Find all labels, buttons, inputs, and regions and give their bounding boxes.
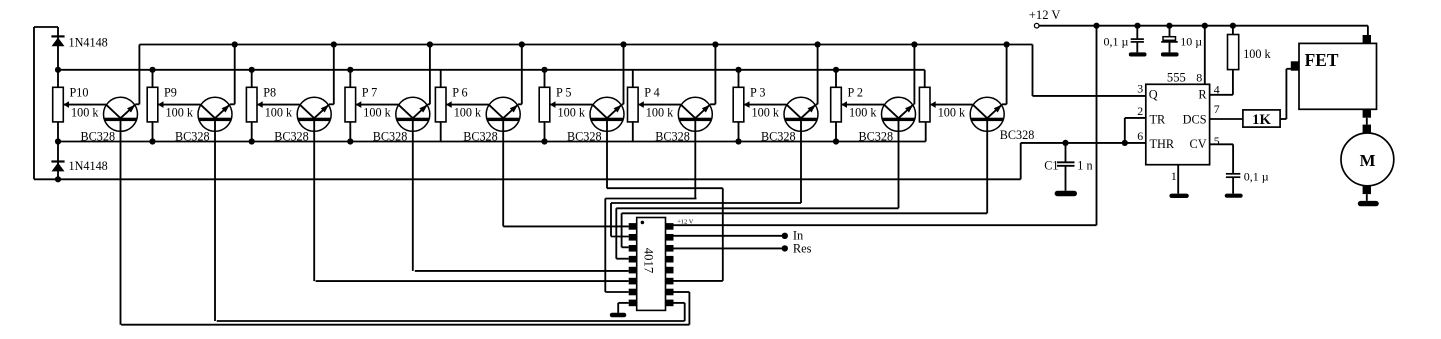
svg-text:P9: P9 [164,86,177,100]
svg-text:5: 5 [1214,134,1220,148]
svg-text:100 k: 100 k [265,106,293,120]
svg-text:DCS: DCS [1183,113,1207,127]
svg-text:BC328: BC328 [761,129,796,143]
svg-text:1 n: 1 n [1077,158,1092,172]
svg-text:1N4148: 1N4148 [69,159,108,173]
svg-text:1K: 1K [1252,112,1271,128]
svg-text:100 k: 100 k [1243,47,1271,61]
svg-text:0,1 µ: 0,1 µ [1104,34,1129,48]
svg-text:7: 7 [1214,102,1220,116]
svg-text:Res: Res [793,241,812,255]
svg-text:8: 8 [1196,70,1202,84]
svg-text:P 2: P 2 [848,86,863,100]
svg-text:10 µ: 10 µ [1180,34,1202,48]
svg-text:BC328: BC328 [463,129,498,143]
svg-text:R: R [1198,88,1207,102]
svg-text:100 k: 100 k [166,106,194,120]
svg-text:BC328: BC328 [1000,128,1035,142]
svg-text:TR: TR [1150,113,1167,127]
svg-text:P 7: P 7 [362,86,377,100]
svg-text:P 6: P 6 [452,86,467,100]
svg-text:100 k: 100 k [646,106,674,120]
svg-text:100 k: 100 k [849,106,877,120]
svg-text:P 4: P 4 [644,86,659,100]
svg-text:BC328: BC328 [859,129,894,143]
svg-text:100 k: 100 k [454,106,482,120]
svg-text:6: 6 [1137,129,1143,143]
svg-text:CV: CV [1190,137,1207,151]
svg-text:THR: THR [1150,137,1175,151]
svg-text:4017: 4017 [642,248,656,273]
svg-text:2: 2 [1137,104,1143,118]
svg-text:BC328: BC328 [655,129,690,143]
svg-text:FET: FET [1305,50,1339,70]
svg-text:P10: P10 [70,86,89,100]
svg-text:1: 1 [1171,169,1177,183]
svg-text:100 k: 100 k [752,106,780,120]
svg-text:M: M [1360,151,1376,170]
svg-text:C1: C1 [1044,158,1058,172]
svg-text:3: 3 [1137,82,1143,96]
svg-text:100 k: 100 k [71,106,99,120]
svg-text:BC328: BC328 [274,129,309,143]
svg-text:1N4148: 1N4148 [69,36,108,50]
svg-text:P 5: P 5 [556,86,571,100]
svg-text:100 k: 100 k [363,106,391,120]
svg-text:BC328: BC328 [373,129,408,143]
svg-text:BC328: BC328 [81,129,116,143]
svg-text:100 k: 100 k [938,106,966,120]
svg-text:555: 555 [1167,70,1186,84]
svg-text:0,1 µ: 0,1 µ [1244,170,1269,184]
svg-text:P8: P8 [263,86,276,100]
svg-text:BC328: BC328 [175,129,210,143]
svg-text:Q: Q [1149,88,1158,102]
svg-text:+12 V: +12 V [1029,8,1061,22]
svg-text:4: 4 [1214,83,1220,97]
svg-text:P 3: P 3 [750,86,765,100]
svg-text:100 k: 100 k [558,106,586,120]
svg-text:BC328: BC328 [567,129,602,143]
